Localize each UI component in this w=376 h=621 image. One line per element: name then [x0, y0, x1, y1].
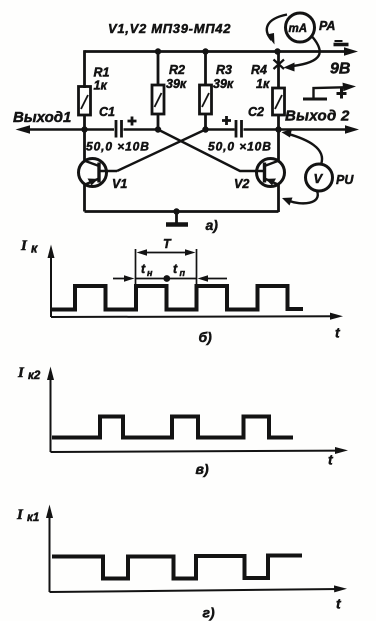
svg-text:к: к	[31, 242, 38, 256]
svg-text:R2: R2	[169, 63, 185, 77]
svg-text:R4: R4	[251, 63, 267, 77]
svg-text:V: V	[314, 171, 324, 186]
svg-text:R1: R1	[94, 66, 110, 80]
svg-text:Выход 2: Выход 2	[285, 108, 350, 125]
svg-text:C1: C1	[99, 105, 115, 119]
svg-text:V2: V2	[234, 177, 249, 191]
svg-text:к2: к2	[28, 370, 41, 382]
svg-text:1к: 1к	[256, 77, 270, 91]
svg-text:9В: 9В	[330, 61, 350, 78]
svg-text:39к: 39к	[213, 77, 234, 91]
svg-text:I: I	[16, 507, 24, 523]
svg-text:V1,V2 МП39-МП42: V1,V2 МП39-МП42	[108, 21, 231, 36]
svg-text:1к: 1к	[94, 79, 108, 93]
svg-text:к1: к1	[27, 512, 39, 524]
svg-text:г): г)	[203, 605, 215, 621]
svg-text:I: I	[20, 238, 28, 254]
svg-text:39к: 39к	[166, 77, 187, 91]
svg-text:н: н	[147, 268, 153, 278]
svg-text:п: п	[180, 268, 186, 278]
svg-text:а): а)	[206, 217, 219, 233]
svg-text:Выход1: Выход1	[13, 109, 71, 126]
svg-text:mA: mA	[289, 23, 308, 35]
svg-text:б): б)	[199, 329, 213, 345]
svg-text:R3: R3	[216, 63, 232, 77]
svg-text:V1: V1	[112, 177, 127, 191]
svg-text:C2: C2	[248, 105, 264, 119]
svg-text:PU: PU	[336, 173, 354, 187]
svg-text:в): в)	[196, 461, 209, 477]
svg-text:50,0 ×10В: 50,0 ×10В	[86, 140, 150, 154]
svg-text:50,0 ×10В: 50,0 ×10В	[208, 140, 272, 154]
svg-text:I: I	[17, 365, 25, 381]
svg-text:PA: PA	[319, 19, 335, 33]
